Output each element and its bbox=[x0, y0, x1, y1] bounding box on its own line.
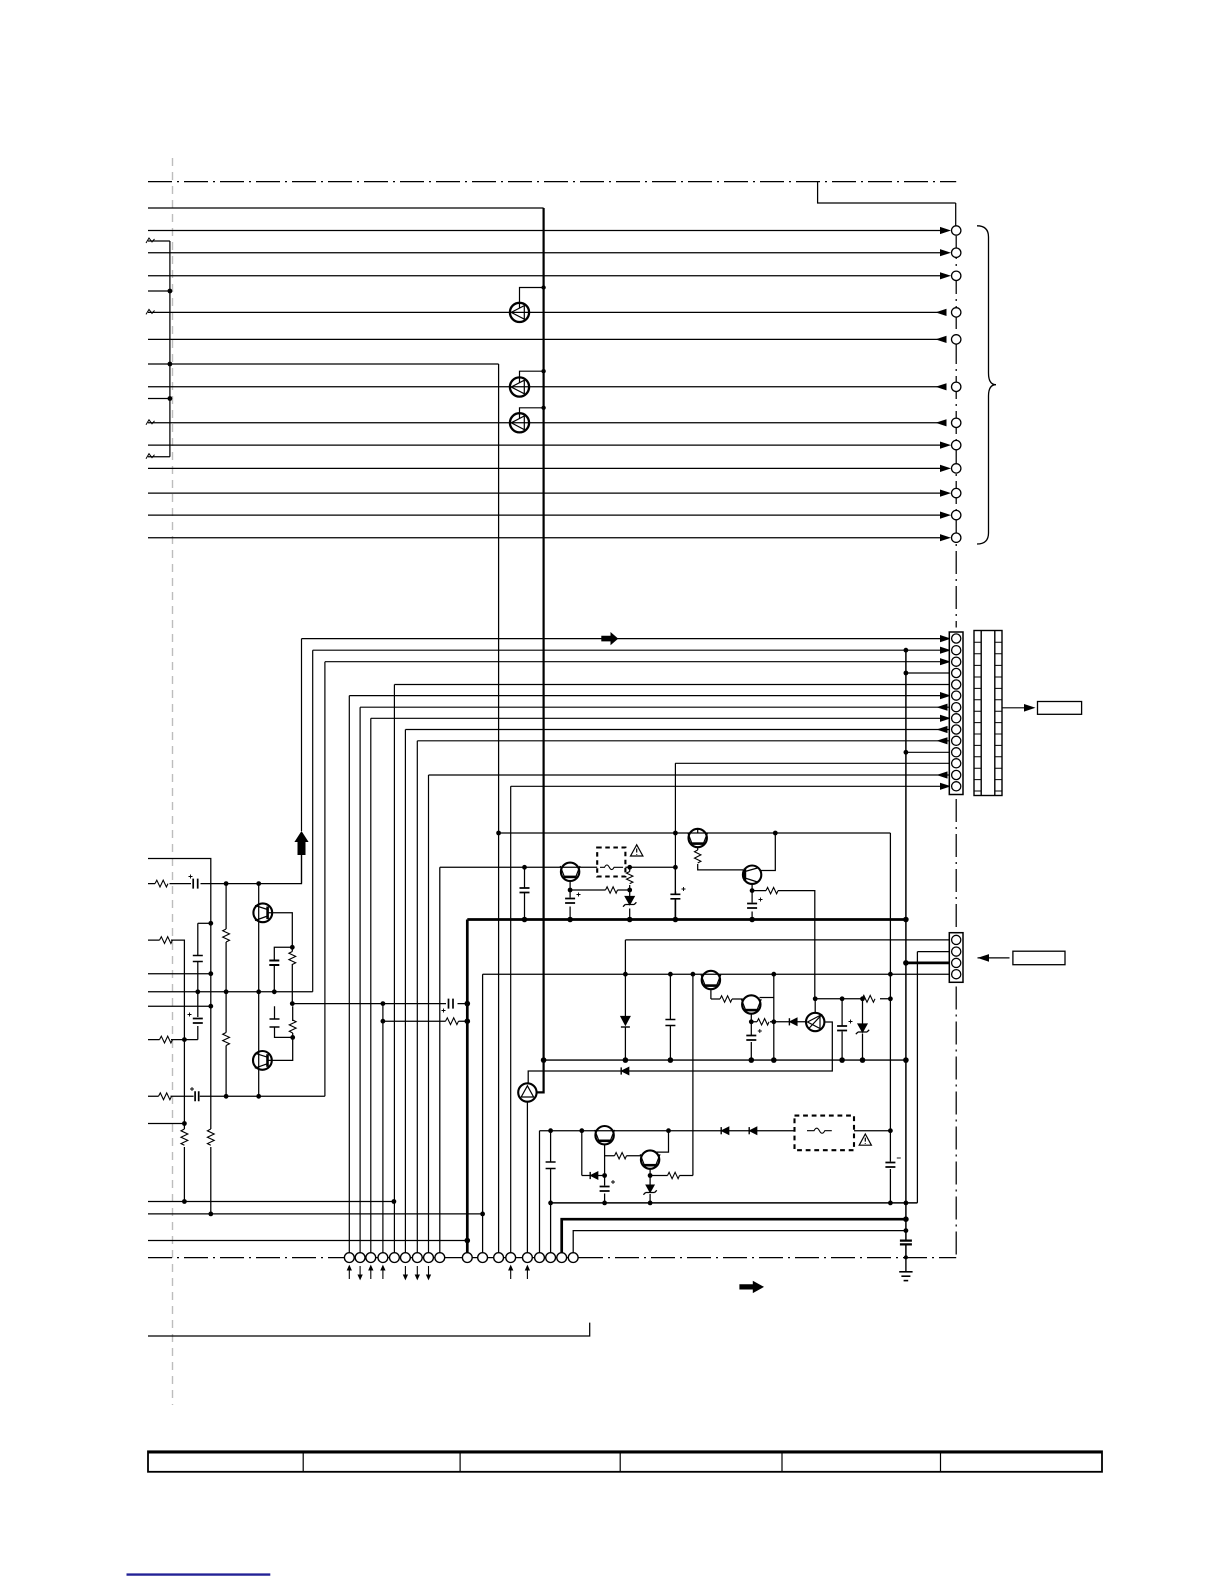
vertical V890 bbox=[889, 833, 891, 1203]
direction ticks below rail bbox=[348, 1266, 530, 1279]
cap C base Q4 bbox=[269, 961, 279, 966]
junction dots mid cluster bbox=[541, 960, 909, 1063]
analog bus line bbox=[148, 991, 313, 993]
diode D V625 bbox=[621, 1017, 630, 1026]
transistor Q3 bbox=[743, 866, 761, 884]
wire T3 collector riser bbox=[760, 833, 775, 871]
junction dots left cluster bbox=[182, 881, 470, 1126]
cap C polarized T5 bbox=[746, 1036, 756, 1041]
riser pin8 bbox=[370, 718, 372, 1252]
zener D fuse bbox=[625, 897, 634, 905]
wire CN1 pin3 bbox=[325, 661, 941, 663]
wire fuse branch vertical bbox=[629, 867, 631, 919]
heavy riser to bottom rail bbox=[466, 920, 469, 1253]
base branch Q4 bbox=[268, 913, 293, 948]
wire T1 emitter tap bbox=[569, 881, 571, 897]
wire CN1 pin1 bbox=[302, 638, 942, 640]
heavy ground bus mid bbox=[467, 918, 906, 921]
connector CN1 body bbox=[949, 632, 963, 795]
wire Q11 emitter R branch bbox=[650, 1175, 693, 1177]
resistor R emitter T1 bbox=[606, 887, 618, 893]
bus flow arrow on pin1 wire bbox=[601, 632, 618, 645]
vertical V211 bbox=[210, 923, 212, 1214]
return line 1 bbox=[148, 1201, 394, 1203]
label box CN1 bbox=[1038, 702, 1082, 715]
connector CN2 body bbox=[949, 933, 963, 983]
triac Q9 bbox=[518, 1083, 536, 1101]
transistor Q7 bbox=[741, 995, 761, 1013]
label box CN2 bbox=[1013, 951, 1065, 965]
long vertical V498 bbox=[498, 364, 500, 1253]
wire input A3 with R bbox=[148, 940, 184, 1029]
wire input A6 with R bbox=[148, 1039, 198, 1041]
edge terminal circles on right boundary bbox=[952, 226, 961, 543]
dashed safety box F2 bbox=[795, 1116, 855, 1151]
wire T5 emitter tap bbox=[750, 1014, 752, 1022]
vertical V693 bbox=[692, 974, 694, 1175]
wire row4 out (buffered) bbox=[148, 311, 947, 313]
wire row5 out bbox=[148, 338, 947, 340]
main ground rail vertical bbox=[905, 650, 907, 1239]
supply rail wire bbox=[499, 832, 891, 834]
wire T6 anode riser bbox=[814, 999, 816, 1013]
local bus line bbox=[544, 1059, 906, 1061]
resistor R on V211 bbox=[207, 1129, 214, 1145]
base branch Q5 bbox=[268, 1037, 293, 1060]
wire T2 emitter loop bbox=[697, 847, 699, 850]
wire Q11 emitter chain bbox=[649, 1169, 651, 1203]
wire row9 out bbox=[148, 467, 941, 469]
cap branch vertical V675 bbox=[674, 867, 676, 891]
label callout wire bbox=[1002, 707, 1024, 709]
wire CN1 pin12 bbox=[675, 762, 951, 764]
cap C polarized T1 emitter bbox=[565, 899, 575, 904]
wire row10 out bbox=[148, 492, 941, 494]
left join bus bbox=[169, 241, 171, 457]
diode D to Q10 emitter bbox=[582, 1175, 605, 1177]
transistor Q1 bbox=[560, 863, 580, 881]
drive line row bbox=[540, 1130, 891, 1132]
vertical V862 zener bbox=[862, 999, 864, 1060]
riser corner V539 bbox=[539, 1131, 541, 1253]
bias line with R bbox=[383, 1018, 467, 1025]
cap C series A2 (polarized) bbox=[193, 879, 198, 889]
transistor Q2 (on supply rail) bbox=[688, 829, 708, 847]
chassis rail terminal circles bbox=[344, 1253, 578, 1263]
wire L1 to vertical bus V544 bbox=[148, 207, 544, 209]
wire CN1 pin11 bbox=[906, 751, 952, 753]
wire CN1 pin10 bbox=[417, 740, 951, 742]
buffer U3 bbox=[510, 413, 529, 432]
bottom ground bus bbox=[551, 1202, 918, 1204]
diode D T6 gate bbox=[790, 1018, 797, 1025]
cap C on T1 base tap bbox=[520, 867, 530, 919]
wire T6 output loop bbox=[528, 1022, 832, 1084]
wire CN1 pin5 bbox=[394, 684, 951, 686]
cap C polarized T3 emitter bbox=[747, 904, 757, 909]
diode D in T6 loop bbox=[622, 1067, 629, 1074]
transistor Q10 (on drive line) bbox=[595, 1126, 615, 1144]
riser pin10 bbox=[416, 741, 418, 1253]
transistor Q11 bbox=[640, 1150, 660, 1168]
cap C series feedback (polarized horiz) bbox=[449, 999, 454, 1009]
junction dots bottom bbox=[182, 1199, 909, 1259]
riser from feedback line to bottom bbox=[382, 1004, 384, 1253]
wire row7 out (buffered) bbox=[148, 422, 947, 424]
buffer U1 bbox=[510, 303, 529, 322]
junction dots supply rail bbox=[496, 831, 909, 923]
wire CN1 pin7 bbox=[360, 706, 951, 708]
buffer U2 input hook bbox=[520, 371, 544, 382]
wire input A1 bbox=[148, 859, 211, 924]
wire Q11 collector hook bbox=[656, 1131, 669, 1152]
wire row8 out bbox=[148, 444, 941, 446]
fuse F1 symbol bbox=[600, 865, 623, 870]
riser pin12 / supply branch bbox=[674, 763, 676, 891]
wire T3 base resistor run bbox=[752, 891, 815, 999]
wire CN1 pin4 bbox=[906, 672, 952, 674]
wire input A2 with RC bbox=[148, 855, 302, 884]
buffer U1 input hook bbox=[520, 288, 544, 309]
grouping brace bbox=[977, 226, 996, 544]
cap C polarized on V890 bbox=[885, 1163, 895, 1168]
footer rule (blue) bbox=[127, 1573, 271, 1575]
warning triangle 2 bbox=[859, 1134, 871, 1145]
vertical V184 lower bbox=[183, 1029, 185, 1202]
revision table bbox=[148, 1451, 1102, 1472]
wire Q10 emitter chain bbox=[604, 1144, 606, 1203]
vertical V774 bbox=[773, 974, 775, 1022]
label callout wire CN2 bbox=[978, 957, 1010, 959]
thyristor Q8 bbox=[806, 1013, 824, 1031]
flow arrow right bbox=[739, 1281, 764, 1293]
wire stub L14 bbox=[148, 456, 170, 458]
cap C polarized on V675 bbox=[670, 892, 680, 920]
resistor R T3 run bbox=[766, 887, 778, 893]
wire row2 out bbox=[148, 252, 941, 254]
return line 3 bbox=[148, 1240, 467, 1242]
junction dots on left bus bbox=[168, 289, 173, 401]
riser pin2 bbox=[312, 650, 314, 992]
resistor R base Q4 bbox=[289, 952, 296, 965]
cap C V670 bbox=[665, 1020, 675, 1026]
wire Q10 base R to Q11 bbox=[605, 1155, 642, 1157]
emitter line bus with RC from edge bbox=[148, 1095, 325, 1097]
wire CN1 pin14 bbox=[511, 785, 941, 787]
vertical V550 with cap bbox=[550, 1131, 552, 1253]
riser CN2 pin2 bbox=[916, 952, 918, 1203]
warning triangle 1 bbox=[631, 845, 643, 856]
resistor R input A2 bbox=[155, 880, 168, 887]
ground symbol bbox=[899, 1257, 912, 1280]
wire CN1 pin9 bbox=[405, 729, 951, 731]
vertical V625 with diode bbox=[624, 940, 626, 1060]
frame: top-right step notch bbox=[818, 182, 956, 203]
heavy return loop upper bbox=[562, 1219, 906, 1252]
heavy wire CN2 pin3 bbox=[906, 962, 952, 965]
wire T4 emitter run bbox=[711, 989, 743, 999]
sense line lower bbox=[815, 998, 890, 1000]
wire row12 out bbox=[148, 537, 941, 539]
wire T1 emitter resistor run bbox=[570, 889, 630, 891]
resistor R fuse lower bbox=[627, 872, 633, 884]
frame: bottom dash-dot boundary line bbox=[148, 1257, 343, 1259]
junction dots drive cluster bbox=[548, 1128, 893, 1178]
wire T2 collector to T3 riser bbox=[697, 829, 699, 833]
riser pin9 bbox=[404, 730, 406, 1253]
cap C2 polarized on V198 bbox=[193, 1019, 203, 1024]
wire CN2 pin2 bbox=[917, 951, 951, 953]
riser pin3 bbox=[324, 662, 326, 1096]
frame: left board edge dashed line (gray) bbox=[172, 158, 174, 1405]
vertical V527 T9 cathode to rail bbox=[526, 1102, 528, 1253]
vertical V226 with resistors bbox=[225, 884, 227, 1097]
wire input A5 bbox=[148, 1005, 211, 1007]
riser pin7 bbox=[359, 707, 361, 1252]
cap C V550 bbox=[546, 1162, 556, 1169]
arrowheads into/out of edge circles bbox=[936, 227, 952, 541]
riser pin1 bbox=[301, 639, 303, 831]
wire CN2 pin4 bbox=[483, 973, 952, 975]
transistor Q6 (on CN2 pin4 wire) bbox=[701, 971, 721, 989]
vertical V670 with cap bbox=[669, 974, 671, 1060]
riser pin13 bbox=[428, 775, 430, 1253]
riser pin14 bbox=[510, 786, 512, 1252]
riser pin6 bbox=[348, 696, 350, 1253]
junction dots fan bbox=[904, 648, 909, 755]
arrowheads at connector CN1 bbox=[937, 635, 952, 790]
wire T3 emitter tap bbox=[751, 884, 753, 891]
wire T5 base run with R and D bbox=[751, 1021, 807, 1023]
resistor R below Q2 bbox=[695, 850, 701, 863]
series cap on ground rail bbox=[900, 1241, 912, 1245]
wire stub L6 bbox=[148, 290, 170, 292]
wire stub with source mark bbox=[148, 240, 170, 242]
buffer U3 input hook bbox=[520, 408, 544, 419]
riser CN2 pin4 bbox=[482, 974, 484, 1252]
cap C polarized Q10 bbox=[600, 1187, 610, 1192]
wire CN1 pin2 bbox=[313, 649, 941, 651]
wire CN1 pin8 bbox=[371, 717, 941, 719]
frame: right dash-dot boundary vertical bbox=[955, 203, 957, 227]
wire CN1 pin13 bbox=[429, 774, 952, 776]
base line T1 row bbox=[440, 866, 597, 868]
diode D pair on drive line bbox=[722, 1127, 729, 1134]
zener D Q11 bbox=[646, 1185, 654, 1192]
vertical V198 with caps bbox=[197, 923, 199, 1039]
wire CN1 pin6 bbox=[349, 695, 941, 697]
vertical V259 collector chain bbox=[258, 884, 260, 992]
wire input A7 bbox=[148, 1123, 184, 1125]
cap C1 on V198 bbox=[193, 956, 203, 962]
buffer U2 bbox=[510, 377, 529, 396]
output line with stub bbox=[148, 1323, 590, 1336]
ribbon cable connector bbox=[974, 631, 1002, 796]
long vertical V544 bbox=[537, 208, 544, 1092]
wire row11 out bbox=[148, 514, 941, 516]
wire row1 out bbox=[148, 230, 941, 232]
transistor Q5 bbox=[253, 1051, 272, 1070]
wire L9 to vertical V498 bbox=[148, 363, 499, 365]
feedback line low bbox=[292, 1003, 467, 1005]
dashed safety box F1 bbox=[597, 848, 625, 877]
wire stub L11 bbox=[148, 398, 170, 400]
wire CN2 pin1 bbox=[625, 939, 951, 941]
power flow arrow up bbox=[294, 831, 308, 855]
vertical V842 cap bbox=[841, 999, 843, 1060]
return line 2 bbox=[148, 1213, 483, 1215]
riser T1 base corner bbox=[439, 867, 441, 1252]
fuse F2 symbol bbox=[807, 1128, 832, 1133]
transistor Q4 bbox=[253, 903, 272, 922]
return loop lower bbox=[573, 1231, 906, 1253]
jog V198 to V211 bbox=[198, 922, 211, 924]
vertical V582 bbox=[581, 1131, 583, 1176]
wire input A4 bbox=[148, 973, 211, 975]
riser pin5 bbox=[393, 685, 395, 1253]
wire row6 out (buffered) bbox=[148, 386, 947, 388]
wire row3 out bbox=[148, 275, 941, 277]
frame: top dash-dot boundary line bbox=[148, 181, 956, 183]
